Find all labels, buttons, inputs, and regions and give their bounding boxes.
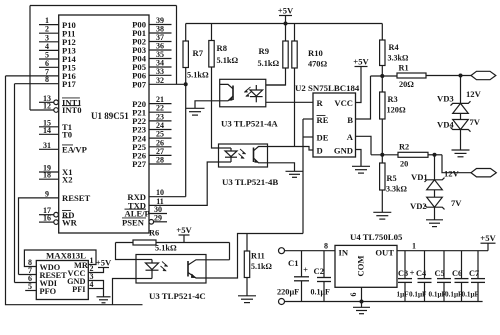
svg-text:B: B [347,115,353,125]
ground R5 [373,212,391,219]
resistor R5 [380,163,385,190]
terminal T2 [471,169,496,177]
wire R2 right [428,154,442,156]
svg-text:VD2: VD2 [410,201,427,211]
wire 4C LED cathode to bottom rail [113,279,137,305]
svg-text:5.1kΩ: 5.1kΩ [258,59,280,68]
pin 16 inversion circle [54,220,59,225]
pin 16 WR stub [39,221,54,223]
zener diode VD3 [451,101,471,113]
ground 4B emitter [286,171,304,177]
resistor R8 [209,41,214,68]
svg-text:OUT: OUT [375,248,394,258]
svg-text:C6: C6 [452,269,462,278]
pin 15 T1 stub [39,126,59,128]
svg-text:3.3kΩ: 3.3kΩ [388,54,409,63]
svg-text:P17: P17 [62,79,77,89]
wire U2 GND [356,150,362,167]
pin 29 PSEN stub [154,221,167,223]
wire PFI tap [88,288,103,290]
resistor R7 [183,41,188,68]
wire R1 to terminal 1 [426,75,471,77]
svg-text:U4 TL750L05: U4 TL750L05 [350,232,403,242]
wire RXD riser [185,84,187,196]
opto 4C LED [136,260,168,279]
svg-text:C4: C4 [416,269,426,278]
svg-text:R3: R3 [388,95,398,104]
pin 39 P00 stub [149,24,172,26]
wire node X horizontal [371,75,398,77]
svg-text:12V: 12V [444,169,460,179]
wire P17 to WDI riser [14,84,16,283]
capacitor C6 [461,251,463,279]
opto U3 TLP521-4A body [220,79,266,107]
svg-text:8: 8 [324,242,328,251]
pin 8 P17 wire to WDI [15,83,59,85]
ground R11 [238,296,256,303]
power +5V U2 [353,56,369,66]
wire bottom rail U4 [285,301,483,303]
opto 4B LED [219,148,246,162]
pin 21 P20 stub [149,103,172,105]
junction COM / bottom rail [360,300,364,304]
pin 36 P03 stub [149,49,172,51]
wire P16 outer loop / bottom rail [6,76,143,305]
pin 6 P15 stub [39,66,59,68]
zener diode VD2 [425,197,445,209]
svg-text:10: 10 [156,188,164,197]
node X junction [380,74,384,78]
wire R9 top [285,24,287,42]
svg-text:16: 16 [43,214,51,223]
wire R5 to ground [381,190,383,212]
wire R7 top [185,24,187,42]
svg-text:18: 18 [43,171,51,180]
svg-text:D: D [317,146,323,156]
pin 22 P21 stub [149,111,172,113]
wire R5 top [381,155,383,163]
svg-text:R7: R7 [193,48,204,58]
pin 37 P02 stub [149,41,172,43]
wire 4A emitter to ground [195,101,220,109]
pin 10 RXD wire [149,196,186,198]
svg-text:C7: C7 [469,269,479,278]
wire R11 to ground [246,278,248,296]
svg-text:A: A [347,132,354,142]
svg-text:WR: WR [62,217,78,227]
pin 5 P14 stub [39,58,59,60]
svg-text:5.1kΩ: 5.1kΩ [187,71,209,80]
ic MAX813L body [36,261,88,300]
svg-text:R: R [317,98,324,108]
resistor R1 [397,73,426,78]
pin 13 INT1 stub [39,101,54,103]
ground MAX [97,297,111,303]
node junction P07/R7/RXD [184,82,188,86]
pin 4 P13 stub [39,49,59,51]
wire U4 OUT to +5V [397,250,488,252]
wire R8 top [211,24,213,41]
pin 19 X1 stub [39,171,59,173]
svg-text:+5V: +5V [480,233,496,243]
svg-text:12: 12 [43,102,51,111]
ground 4A emitter [186,108,205,115]
pin 30 ALE/P stub [149,213,167,215]
wire R4 bottom [381,66,383,77]
svg-text:VD1: VD1 [411,172,428,182]
svg-text:C1: C1 [288,258,299,268]
svg-text:R8: R8 [217,43,228,53]
junction VD3 branch [459,74,463,78]
pin 17 inversion circle [54,212,59,217]
svg-text:3.3kΩ: 3.3kΩ [386,185,407,194]
svg-text:/VP: /VP [72,145,87,155]
svg-text:220μF: 220μF [277,288,299,297]
wire R6 left [116,242,134,244]
capacitor C1 [301,251,303,277]
pin 7 P16 wire to outer loop [6,75,59,77]
wire 4A LED cathode to U2 R pin [266,101,313,103]
svg-text:R6: R6 [149,229,159,238]
wire VD3-VD4 [460,113,462,119]
pin 26 P25 stub [149,146,172,148]
power +5V MAX [96,257,112,267]
svg-text:+5V: +5V [278,5,294,15]
power +5V top [278,5,294,15]
wire jog to terminal 2 [442,155,471,173]
svg-text:14: 14 [43,126,51,135]
ground U2 [352,166,370,173]
wire 4C emitter to RE/DE net [206,234,303,279]
svg-text:R2: R2 [399,143,409,152]
svg-text:5: 5 [28,282,32,291]
zener diode VD4 [451,120,471,132]
terminal T1 [471,71,496,79]
node Y junction [380,153,384,157]
svg-text:28: 28 [156,156,164,165]
wire RE tap [303,118,313,120]
capacitor C2 [323,251,325,278]
wire R6 to 4C collector [156,242,230,244]
junction +5V rail [284,22,288,26]
svg-text:U3 TLP521-4C: U3 TLP521-4C [149,291,206,301]
svg-text:R9: R9 [259,46,270,56]
svg-text:+: + [303,265,308,275]
ground VD1/VD2 [426,220,443,227]
wire VD2 to ground [434,207,436,220]
svg-text:0.1μF: 0.1μF [445,291,463,299]
wire 4C collector riser [229,243,231,260]
wire VCC to +5V [88,268,103,273]
svg-text:+5V: +5V [176,225,192,235]
svg-text:+5V: +5V [96,257,112,267]
pin 38 P01 stub [149,32,172,34]
junction VD1 branch [433,153,437,157]
wire WDI [15,282,37,284]
ic U1 89C51 body [59,15,149,233]
pin 17 RD stub [39,214,54,216]
pin 9 RESET wire to MAX813L [19,198,59,275]
wire U2 VCC to +5V [356,67,362,103]
svg-text:4: 4 [90,280,94,289]
svg-text:U2 SN75LBC184: U2 SN75LBC184 [295,83,360,93]
pin 14 T0 stub [39,133,59,135]
wire top rail P17 to P07 node [30,5,177,7]
pin 12 inversion circle [54,108,59,113]
svg-text:0.1μF: 0.1μF [311,288,331,297]
power +5V R6 [176,225,192,235]
svg-text:470Ω: 470Ω [308,60,327,69]
pin 32 P07 wire [149,83,186,85]
svg-text:P27: P27 [132,159,147,169]
wire 4A LED anode [266,84,286,86]
power +5V output [480,233,496,243]
pin 35 P04 stub [149,58,172,60]
opto U3 TLP521-4B body [219,144,268,167]
wire R3 bottom to node Y [381,119,383,155]
svg-text:VD4: VD4 [437,120,454,130]
resistor R9 [283,41,288,68]
wire RE/DE riser to 4C emitter net [302,119,304,234]
capacitor C5 [443,251,445,279]
pin 11 TXD wire to 4B LED cathode [149,162,219,205]
terminal input - [279,299,285,305]
svg-text:8: 8 [45,75,49,84]
pin 5 PFO stub [25,290,36,292]
svg-text:GND: GND [334,146,353,156]
resistor R3 [380,92,385,119]
pin 34 P05 stub [149,66,172,68]
svg-text:VD3: VD3 [437,94,454,104]
pin 24 P23 stub [149,129,172,131]
wire R3 top [381,76,383,92]
svg-text:PSEN: PSEN [122,218,145,228]
pin 12 INT0 wire [30,109,54,111]
svg-text:12V: 12V [466,89,482,99]
wire R11 top [246,234,248,252]
svg-text:31: 31 [43,141,51,150]
resistor R10 [292,41,297,68]
wire riser right to P07 [176,6,178,85]
svg-text:R1: R1 [399,64,409,73]
pin 2 P11 stub [39,32,59,34]
svg-text:RESET: RESET [62,193,90,203]
pin 31 EA/VP stub [39,148,59,150]
svg-text:INT0: INT0 [62,105,82,115]
svg-text:R4: R4 [389,43,399,52]
svg-text:0.1μF: 0.1μF [462,291,480,299]
opto 4A LED [244,85,262,102]
svg-text:32: 32 [156,76,164,85]
wire node Y horizontal [371,154,398,156]
wire VD1-VD2 [434,190,436,197]
pin 27 P26 stub [149,154,172,156]
pin 1 P10 stub [39,24,59,26]
pin 23 P22 stub [149,120,172,122]
svg-text:7V: 7V [470,117,481,127]
opto U3 TLP521-4C body [136,255,206,284]
terminal input + [279,248,285,254]
svg-text:120Ω: 120Ω [387,106,406,115]
svg-text:20Ω: 20Ω [399,80,414,89]
pin 25 P24 stub [149,137,172,139]
opto 4C phototransistor [188,260,206,278]
resistor R11 [244,251,249,278]
svg-text:COM: COM [356,255,366,276]
svg-text:29: 29 [154,213,162,222]
svg-text:+5V: +5V [353,56,369,66]
svg-text:25: 25 [156,130,164,139]
pin 18 X2 stub [39,178,59,180]
svg-text:1: 1 [412,242,416,251]
svg-text:PFO: PFO [40,287,57,296]
pin 29 inversion circle [149,220,154,225]
wire 4C collector [206,259,230,261]
svg-text:IN: IN [339,248,349,258]
wire +5V rail [186,23,383,25]
svg-text:22: 22 [156,104,164,113]
svg-text:5.1kΩ: 5.1kΩ [155,244,177,253]
wire 4B emitter to ground [262,163,295,172]
wire R8 to 4B LED anode [212,67,219,148]
svg-text:0.1μF: 0.1μF [409,291,427,299]
wire U2 B to node X [356,76,371,119]
ic U4 TL750L05 body [335,245,397,287]
resistor R4 [380,40,385,66]
capacitor C3 [404,251,406,279]
wire 4B collector to U2 D pin [268,147,314,151]
svg-text:0.1μF: 0.1μF [429,291,447,299]
pin 3 P12 stub [39,41,59,43]
svg-text:X2: X2 [62,174,73,184]
svg-text:U1 89C51: U1 89C51 [91,111,129,121]
wire RESET to MAX [19,274,37,276]
wire +5V output stem [487,243,489,251]
svg-text:VCC: VCC [334,98,353,108]
svg-text:R10: R10 [308,48,323,58]
ic U2 SN75LBC184 body [313,93,356,157]
ground U4 COM [353,307,370,313]
resistor R2 [398,152,428,157]
svg-text:20: 20 [400,160,408,169]
svg-text:U3 TLP521-4B: U3 TLP521-4B [222,177,278,187]
wire VD4 to ground [460,130,462,151]
svg-text:PFI: PFI [72,285,85,294]
wire to 4C LED anode [116,243,137,260]
wire riser left to INT0 [29,6,31,111]
opto 4B phototransistor [254,147,268,163]
svg-text:6: 6 [349,293,358,297]
svg-text:7V: 7V [451,198,462,208]
svg-text:5.1kΩ: 5.1kΩ [251,262,272,271]
wire GND to ground [88,281,103,297]
wire R10 to D line [294,68,296,147]
svg-text:T0: T0 [62,130,72,140]
pin 28 P27 stub [149,163,172,165]
wire to VD3 [460,76,462,104]
wire R10 top [294,24,296,42]
svg-text:MAX813L: MAX813L [46,250,86,260]
wire U2 A to node Y [356,136,372,155]
resistor R6 [133,240,156,245]
opto 4A phototransistor [220,84,233,100]
svg-text:DE: DE [317,133,329,143]
svg-text:9: 9 [45,189,49,198]
svg-text:U3 TLP521-4A: U3 TLP521-4A [221,119,278,129]
wire DE tap [303,136,313,138]
svg-text:C5: C5 [435,269,445,278]
capacitor C4 [424,251,426,279]
wire R4 top [381,24,383,41]
svg-text:R11: R11 [251,252,265,261]
wire input to U4 IN [285,250,336,252]
svg-text:RE: RE [317,115,329,125]
svg-text:33: 33 [156,67,164,76]
ground VD3/VD4 [452,150,470,157]
capacitor C7 [477,251,479,279]
svg-text:C3: C3 [398,269,408,278]
wire R9 to 4A LED anode [266,68,286,85]
svg-text:R5: R5 [387,174,397,183]
pin 13 inversion circle [54,100,59,105]
wire WDO to MR loop [24,250,96,267]
svg-text:5.1kΩ: 5.1kΩ [217,56,239,65]
svg-text:C2: C2 [314,266,325,276]
svg-text:P07: P07 [132,80,147,90]
wire +5V stem [285,16,287,24]
svg-text:1μF: 1μF [397,291,410,299]
svg-text:+: + [410,268,415,278]
wire R7 bottom [185,68,187,85]
wire +5V stem R6 [183,235,185,243]
pin 33 P06 stub [149,74,172,76]
wire COM to ground [361,287,363,307]
wire to VD1 [434,155,436,180]
zener diode VD1 [425,178,445,190]
